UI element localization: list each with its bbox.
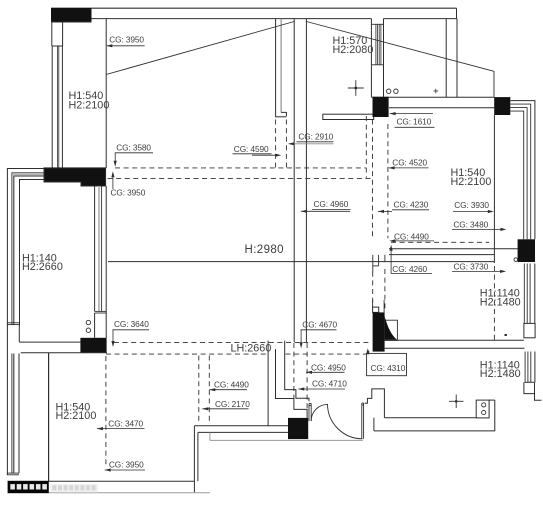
hall door small box	[373, 307, 379, 312]
wall window-wall left line	[370, 19, 372, 98]
balcony bottom wall lower	[21, 352, 107, 354]
cross symbol v top room	[355, 80, 357, 96]
dashed vertical x366	[365, 116, 367, 178]
window left mid line a	[56, 46, 58, 168]
dashed ceiling line y178	[108, 177, 373, 179]
bay1 window line b	[526, 264, 528, 324]
door left post line b	[310, 404, 312, 422]
svg-text:CG: 3950: CG: 3950	[109, 35, 144, 45]
window left inner line	[61, 46, 63, 168]
bay1 window line c	[529, 264, 531, 324]
dashed vertical x105 bottom-left	[105, 356, 107, 466]
balcony window bottom cap a	[7, 322, 20, 324]
wall bedroom right side x494	[493, 115, 495, 255]
door right post line a	[361, 403, 363, 439]
window left mid line b	[58, 46, 60, 168]
door right post cap 2	[362, 404, 364, 406]
bay1 window line a	[523, 264, 525, 324]
hall door frame line b	[383, 300, 385, 312]
svg-text:CG: 3950: CG: 3950	[109, 459, 144, 469]
window line b	[377, 24, 379, 65]
dashed vertical x293 entry	[293, 343, 295, 398]
step wall inner contour	[285, 341, 309, 402]
bay window NE line 4	[510, 111, 523, 239]
bottom-left room left wall	[48, 353, 50, 481]
column right mid x517	[518, 239, 535, 262]
wall stub bottom cap	[276, 116, 287, 118]
porch top connector	[489, 399, 495, 401]
door leaf arc large	[328, 404, 363, 439]
column top-left	[51, 8, 92, 22]
dashed ceiling line y168	[115, 167, 366, 169]
balcony corner line 3	[14, 176, 44, 325]
balcony corner line 4 inner	[20, 180, 45, 326]
hall door black bar	[373, 312, 385, 351]
svg-text:CG: 4670: CG: 4670	[302, 319, 337, 329]
bay2 window line d outer	[534, 352, 536, 383]
cross symbol v bay2	[455, 395, 457, 409]
porch left connector	[373, 418, 375, 431]
dashed line y354 right part	[286, 353, 367, 355]
svg-text:H2:2080: H2:2080	[333, 44, 374, 56]
wall top outer	[51, 7, 457, 9]
wall line x106 lower run	[105, 186, 107, 353]
small circle near column x517	[514, 258, 518, 262]
bottom wall lower gray line	[49, 492, 210, 494]
wall top-left room left side	[105, 19, 107, 168]
svg-text:CG: 4950: CG: 4950	[311, 362, 346, 372]
hall door leaf box	[385, 320, 398, 340]
corner step SE outer b	[535, 383, 542, 400]
step wall outer vertical x268	[267, 341, 269, 426]
cross symbol h bay2	[449, 400, 464, 402]
dashed vertical x307 entry	[306, 343, 308, 409]
bottom window line 3	[13, 353, 15, 473]
hall door frame line a	[372, 300, 374, 307]
door left post cap top	[309, 403, 311, 405]
small plus mark v	[435, 89, 437, 94]
step wall middle contour	[276, 349, 308, 418]
balcony right window line a	[94, 186, 96, 311]
balcony bottom wall upper	[19, 341, 80, 343]
bay divider wall block	[524, 323, 535, 337]
wall top inner right run	[384, 18, 457, 20]
balcony right window line b	[101, 186, 103, 311]
balcony outer corner line 1	[7, 169, 44, 476]
bay window NE line 3	[510, 108, 527, 240]
dashed vertical x372 upper	[372, 120, 374, 239]
wall stub inner gray x281	[280, 19, 282, 113]
dashed line y354 left part	[106, 353, 268, 355]
ceiling ridge diagonal left	[106, 22, 294, 75]
porch edge gray line	[210, 439, 363, 441]
wall central left line	[293, 19, 295, 342]
svg-text:CG: 4710: CG: 4710	[312, 378, 347, 388]
svg-text:CG: 1610: CG: 1610	[397, 116, 432, 126]
window sill top-left	[52, 45, 63, 47]
column balcony L-shape	[44, 168, 106, 186]
cross symbol h top room	[348, 87, 364, 89]
watermark glyph	[10, 484, 15, 489]
balcony window gray band h	[13, 174, 44, 176]
dashed vertical x372 lower	[372, 272, 374, 304]
dashed vertical x198 kitchen	[198, 356, 200, 425]
svg-text:CG: 2170: CG: 2170	[215, 399, 250, 409]
dashed vertical x384 lower	[384, 269, 386, 310]
svg-text:CG: 4960: CG: 4960	[314, 199, 349, 209]
bottom-left room right wall outer	[193, 426, 195, 493]
wall bay1 left top piece	[493, 255, 495, 263]
dashed vertical x494	[493, 266, 495, 340]
bottom window cap b	[7, 474, 19, 476]
white box left edge below window	[94, 313, 96, 338]
ceiling ridge diagonal right	[306, 22, 494, 72]
column balcony bottom x80	[80, 338, 106, 353]
label 4310 box	[367, 353, 407, 375]
bottom window cap a	[7, 472, 19, 474]
svg-text:CG: 4260: CG: 4260	[392, 264, 427, 274]
circle pair a near column	[387, 89, 391, 93]
tiny marker dot right hall	[505, 334, 507, 336]
dashed vertical x209 kitchen	[208, 356, 210, 425]
balcony window bottom cap b	[7, 324, 20, 326]
corner step SE outer a	[524, 382, 535, 393]
door right post cap top	[362, 402, 364, 404]
wall left inner upper	[62, 22, 64, 46]
entry low wall lower line	[198, 431, 288, 433]
label 4310 leader dot	[367, 351, 369, 354]
wall stub L return	[281, 112, 286, 116]
svg-text:H2:1480: H2:1480	[480, 296, 521, 308]
svg-text:H2:2100: H2:2100	[451, 176, 492, 188]
column mid x372 y97	[373, 97, 389, 117]
wall right rooms divider lower	[385, 347, 525, 349]
bay window NE line 2	[510, 104, 530, 239]
step lines below column x372	[372, 255, 374, 272]
bottom window line inner	[18, 353, 20, 473]
hinge circle b	[86, 328, 90, 332]
ceiling ridge right drop	[493, 71, 495, 97]
svg-text:CG: 3730: CG: 3730	[454, 261, 489, 271]
window bottom cap H1:570	[372, 64, 383, 66]
dashed vertical x387	[387, 124, 389, 238]
appliance circle b	[482, 410, 486, 414]
svg-text:H2:2660: H2:2660	[22, 261, 63, 273]
column right top x494	[494, 97, 510, 115]
porch right wall	[494, 400, 496, 431]
label 4310 leader	[367, 351, 369, 353]
soffit line H2980 full width	[108, 261, 494, 263]
bay2 window line a	[524, 352, 526, 383]
window line d	[380, 24, 382, 65]
bay2 window bottom cap	[525, 381, 536, 383]
small plus mark h	[434, 90, 439, 92]
door leaf arc small	[311, 404, 327, 421]
svg-text:CG: 4590: CG: 4590	[234, 144, 269, 154]
entry low wall upper line	[194, 425, 288, 427]
svg-text:H2:2100: H2:2100	[69, 100, 110, 112]
dashed vertical x286	[285, 120, 287, 168]
svg-text:H:2980: H:2980	[245, 244, 284, 256]
balcony right window gray band	[98, 186, 100, 311]
door left post line a	[308, 404, 310, 422]
bay2 window line b	[527, 352, 529, 383]
appliance box with circles	[476, 400, 489, 418]
watermark gray strip	[50, 484, 98, 493]
svg-text:CG: 3930: CG: 3930	[454, 200, 489, 210]
wall window-wall right line	[383, 19, 385, 98]
svg-text:CG: 2910: CG: 2910	[298, 132, 333, 142]
svg-text:CG: 4490: CG: 4490	[214, 379, 249, 389]
svg-text:H2:1480: H2:1480	[480, 368, 521, 380]
hinge circle a	[86, 320, 90, 324]
door left post cap 2	[309, 405, 311, 407]
balcony corner line 2	[12, 173, 44, 325]
watermark gray glyph	[53, 485, 57, 490]
svg-text:CG: 4230: CG: 4230	[394, 200, 429, 210]
svg-text:CG: 4310: CG: 4310	[371, 363, 406, 373]
wall right band outer x456	[456, 19, 458, 98]
bay1 window line d outer	[534, 264, 536, 324]
svg-text:CG: 3470: CG: 3470	[108, 418, 143, 428]
bottom-left room right wall inner	[197, 432, 199, 481]
dashed line y342	[114, 341, 370, 343]
door right post line b	[363, 403, 365, 439]
svg-text:CG: 3950: CG: 3950	[111, 188, 146, 198]
wall stub outer x275	[275, 19, 277, 118]
column entry left x288	[288, 418, 308, 439]
balcony inner edge to wall	[18, 325, 20, 343]
window left outer line	[51, 46, 53, 168]
porch inner bottom line	[384, 417, 476, 419]
entry right step contour	[365, 389, 385, 418]
hall door thick arc	[385, 317, 398, 340]
wall under column	[52, 21, 92, 23]
appliance circle a	[482, 403, 486, 407]
svg-text:LH:2660: LH:2660	[231, 343, 272, 355]
bottom window line 2	[11, 353, 13, 473]
svg-text:CG: 3480: CG: 3480	[453, 220, 488, 230]
wall bedroom top lower line	[389, 107, 494, 109]
wall right rooms top lower	[389, 254, 494, 256]
porch edge gray connector	[209, 432, 211, 440]
dashed line y242 bedroom	[391, 241, 489, 243]
wall left outer upper	[51, 22, 53, 46]
cross symbol center dot	[355, 87, 357, 89]
bottom wall upper line	[49, 480, 195, 482]
label 4310 arrow up	[366, 348, 369, 354]
wall right rooms top upper	[389, 248, 518, 250]
wall bedroom top upper line	[371, 96, 494, 98]
watermark black box	[8, 481, 49, 493]
svg-text:CG: 4520: CG: 4520	[392, 158, 427, 168]
balcony window gray band v	[12, 177, 14, 325]
wall top end cap	[456, 8, 458, 18]
svg-text:CG: 4490: CG: 4490	[394, 232, 429, 242]
svg-text:CG: 3640: CG: 3640	[114, 319, 149, 329]
wall central right line	[305, 19, 307, 342]
shelf bar above hall	[323, 114, 374, 119]
wall right rooms divider upper	[385, 339, 524, 341]
window line a	[375, 24, 377, 65]
svg-text:CG: 3580: CG: 3580	[116, 143, 151, 153]
window top cap H1:570	[372, 23, 383, 25]
window line c	[378, 24, 380, 65]
dashed vertical x275	[275, 120, 277, 168]
bottom window gray band	[12, 354, 14, 473]
bay window NE line 1	[510, 101, 535, 240]
wall right band inner x446	[445, 19, 447, 98]
circle pair b near column	[394, 89, 398, 93]
cross symbol bay2 dot	[455, 400, 457, 402]
balcony right window cap b	[95, 312, 107, 314]
porch outer bottom line	[374, 430, 495, 432]
wall top inner left run	[92, 18, 372, 20]
svg-text:H2:2100: H2:2100	[56, 410, 97, 422]
bay2 window line c	[530, 352, 532, 383]
balcony right window cap a	[95, 310, 107, 312]
